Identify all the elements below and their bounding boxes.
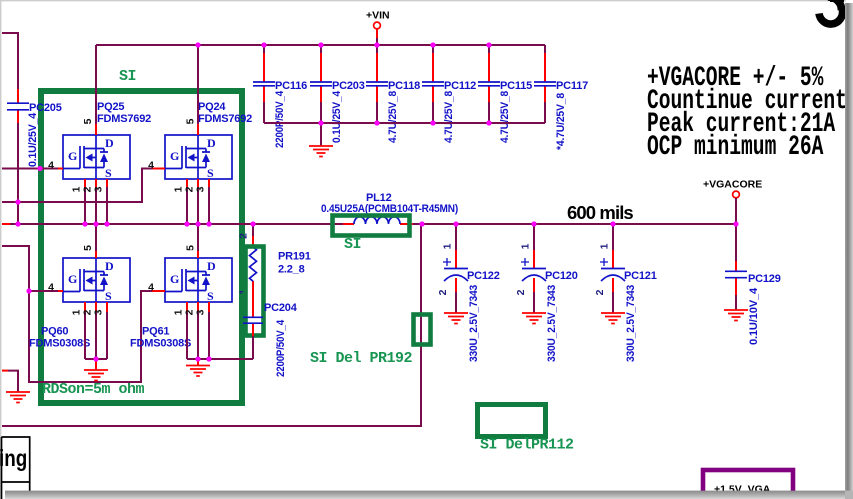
svg-text:PC205: PC205 xyxy=(29,102,62,114)
svg-text:0.1U/25V_4: 0.1U/25V_4 xyxy=(331,90,343,143)
svg-text:S: S xyxy=(105,289,112,303)
svg-text:*4.7U/25V_8: *4.7U/25V_8 xyxy=(555,93,567,150)
ing text xyxy=(0,446,27,471)
svg-text:D: D xyxy=(105,259,114,273)
svg-text:2: 2 xyxy=(515,289,527,295)
svg-text:PQ24: PQ24 xyxy=(198,101,226,113)
svg-text:5: 5 xyxy=(82,245,94,251)
svg-text:0.45U25A(PCMB104T-R45MN): 0.45U25A(PCMB104T-R45MN) xyxy=(321,203,458,215)
transistor PQ24 xyxy=(148,45,252,224)
svg-text:4.7U/25V_8: 4.7U/25V_8 xyxy=(499,91,511,143)
svg-text:PC120: PC120 xyxy=(545,270,578,282)
svg-text:4.7U/25V_8: 4.7U/25V_8 xyxy=(443,91,455,143)
svg-text:3: 3 xyxy=(93,186,105,192)
ground PC121 xyxy=(601,313,625,324)
svg-text:S: S xyxy=(105,166,112,180)
ground PC129 xyxy=(724,310,748,321)
transistor PQ60 xyxy=(29,224,130,370)
svg-text:5: 5 xyxy=(82,118,94,124)
capacitor PC112 xyxy=(422,45,476,143)
svg-text:PC118: PC118 xyxy=(388,80,420,92)
wire PQ25 gate xyxy=(2,168,58,170)
svg-text:PQ60: PQ60 xyxy=(41,326,68,338)
resistor PR191 xyxy=(238,224,311,301)
svg-text:1: 1 xyxy=(442,243,454,249)
ground PC122 xyxy=(444,313,468,324)
svg-text:2: 2 xyxy=(594,289,606,295)
svg-text:G: G xyxy=(170,149,179,163)
svg-text:FDMS0308S: FDMS0308S xyxy=(130,338,191,350)
annotation box Del PR112 xyxy=(478,405,546,437)
wire +VIN top rail xyxy=(96,45,545,62)
svg-text:SI Del PR192: SI Del PR192 xyxy=(310,350,413,367)
svg-text:PC116: PC116 xyxy=(275,80,307,92)
svg-text:5: 5 xyxy=(185,245,197,251)
+VGACORE port xyxy=(703,179,762,225)
wire SW rail xyxy=(10,223,736,225)
svg-text:330U_2.5V_7343: 330U_2.5V_7343 xyxy=(546,285,558,362)
big page number 3 top-right xyxy=(819,0,844,24)
transistor PQ61 xyxy=(130,224,253,366)
svg-text:3: 3 xyxy=(93,309,105,315)
svg-text:PC115: PC115 xyxy=(500,80,532,92)
svg-text:D: D xyxy=(207,259,216,273)
svg-text:PQ61: PQ61 xyxy=(142,326,169,338)
svg-text:D: D xyxy=(105,136,114,150)
svg-text:2.2_8: 2.2_8 xyxy=(278,264,305,276)
svg-text:+VIN: +VIN xyxy=(366,10,390,22)
svg-text:4.7U/25V_8: 4.7U/25V_8 xyxy=(387,91,399,143)
svg-text:PC122: PC122 xyxy=(467,270,500,282)
ground PC120 xyxy=(522,313,546,324)
ground left xyxy=(6,392,30,403)
transistor PQ25 xyxy=(48,45,151,224)
capacitor PC115 xyxy=(478,45,532,143)
ground PQ60 xyxy=(84,370,108,381)
capacitor PC204 xyxy=(243,301,298,377)
svg-text:4: 4 xyxy=(148,160,154,172)
svg-text:600 mils: 600 mils xyxy=(567,202,633,223)
capacitor PC129 xyxy=(725,224,781,345)
annotation box PR191 xyxy=(246,247,264,336)
+VIN port xyxy=(366,10,390,46)
svg-text:0.1U/25V_4: 0.1U/25V_4 xyxy=(27,112,39,167)
svg-text:S: S xyxy=(207,166,214,180)
svg-text:S: S xyxy=(207,289,214,303)
title block corner box xyxy=(2,437,30,499)
svg-text:PR191: PR191 xyxy=(278,251,311,263)
svg-text:G: G xyxy=(170,272,179,286)
capacitor PC205 xyxy=(7,89,62,167)
inductor PL12 xyxy=(321,192,458,224)
svg-text:5: 5 xyxy=(185,118,197,124)
svg-text:PC204: PC204 xyxy=(264,302,298,314)
svg-text:PC129: PC129 xyxy=(748,273,781,285)
svg-text:2200P/50V_4: 2200P/50V_4 xyxy=(275,319,287,377)
svg-text:FDMS0308S: FDMS0308S xyxy=(29,338,90,350)
svg-text:D: D xyxy=(207,136,216,150)
svg-text:ing: ing xyxy=(0,446,27,471)
wire low-side gate net xyxy=(2,246,152,382)
wire left vertical with PC205 xyxy=(2,33,18,223)
svg-text:OCP minimum 26A: OCP minimum 26A xyxy=(647,132,824,163)
wire left ground branch xyxy=(2,370,8,372)
capacitor PC122 xyxy=(437,224,500,362)
annotation box PL12 xyxy=(333,216,410,236)
svg-text:PC203: PC203 xyxy=(332,80,365,92)
svg-text:1: 1 xyxy=(599,243,611,249)
svg-text:SI: SI xyxy=(344,236,361,253)
svg-text:4: 4 xyxy=(48,160,54,172)
svg-text:4: 4 xyxy=(148,282,154,294)
svg-text:FDMS7692: FDMS7692 xyxy=(198,113,252,125)
svg-text:330U_2.5V_7343: 330U_2.5V_7343 xyxy=(468,285,480,362)
svg-text:PQ25: PQ25 xyxy=(97,101,124,113)
svg-text:330U_2.5V_7343: 330U_2.5V_7343 xyxy=(625,285,637,362)
capacitor PC116 xyxy=(253,45,307,148)
svg-text:G: G xyxy=(68,272,77,286)
svg-text:3: 3 xyxy=(195,186,207,192)
svg-text:2: 2 xyxy=(238,233,250,239)
SI big annotation box xyxy=(41,91,242,403)
svg-text:G: G xyxy=(68,149,77,163)
svg-text:PC112: PC112 xyxy=(444,80,476,92)
shadow right xyxy=(845,3,853,499)
wire bottom loop to SW xyxy=(2,224,421,426)
capacitor PC203 xyxy=(310,45,365,146)
svg-text:2: 2 xyxy=(437,289,449,295)
wire PQ24 gate xyxy=(2,169,152,203)
ground PQ61 xyxy=(186,366,210,377)
capacitor PC118 xyxy=(366,45,420,143)
capacitor PC117 xyxy=(534,45,588,150)
svg-text:SI: SI xyxy=(119,68,136,85)
capacitor PC120 xyxy=(515,224,578,362)
svg-text:2200P/50V_4: 2200P/50V_4 xyxy=(274,90,286,148)
svg-text:RDSon=5m ohm: RDSon=5m ohm xyxy=(42,381,145,398)
annotation box Del PR192 xyxy=(414,315,431,345)
svg-text:FDMS7692: FDMS7692 xyxy=(97,113,151,125)
shadow bottom xyxy=(5,491,845,499)
note text block xyxy=(647,63,853,163)
svg-text:4: 4 xyxy=(48,282,54,294)
svg-text:1: 1 xyxy=(520,243,532,249)
svg-text:3: 3 xyxy=(195,309,207,315)
svg-text:0.1U/10V_4: 0.1U/10V_4 xyxy=(748,287,760,345)
capacitor PC121 xyxy=(594,224,657,362)
svg-text:+VGACORE: +VGACORE xyxy=(703,179,762,191)
red tick SW rail left xyxy=(2,223,10,225)
svg-text:SI DelPR112: SI DelPR112 xyxy=(480,437,574,454)
wire capacitor bank bottom rail xyxy=(264,122,545,124)
svg-text:PC117: PC117 xyxy=(556,80,588,92)
svg-text:PC121: PC121 xyxy=(624,270,657,282)
ground PC203 xyxy=(309,146,333,157)
power box +1.5V_VGA xyxy=(703,470,793,499)
